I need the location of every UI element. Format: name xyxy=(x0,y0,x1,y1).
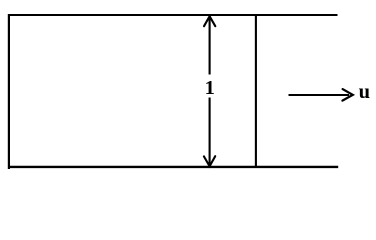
gap arrow lower shaft xyxy=(209,98,211,167)
gap arrow top head xyxy=(204,16,215,26)
velocity arrow shaft xyxy=(289,94,350,96)
inner vertical line xyxy=(255,14,257,168)
left wall line xyxy=(8,14,10,169)
bottom plate line xyxy=(8,166,338,168)
velocity arrow head xyxy=(342,89,352,101)
gap arrow bottom head xyxy=(204,156,215,166)
gap arrow upper shaft xyxy=(209,16,211,75)
svg-text:1: 1 xyxy=(205,77,215,99)
svg-text:u: u xyxy=(359,81,370,103)
top plate line xyxy=(8,14,338,16)
